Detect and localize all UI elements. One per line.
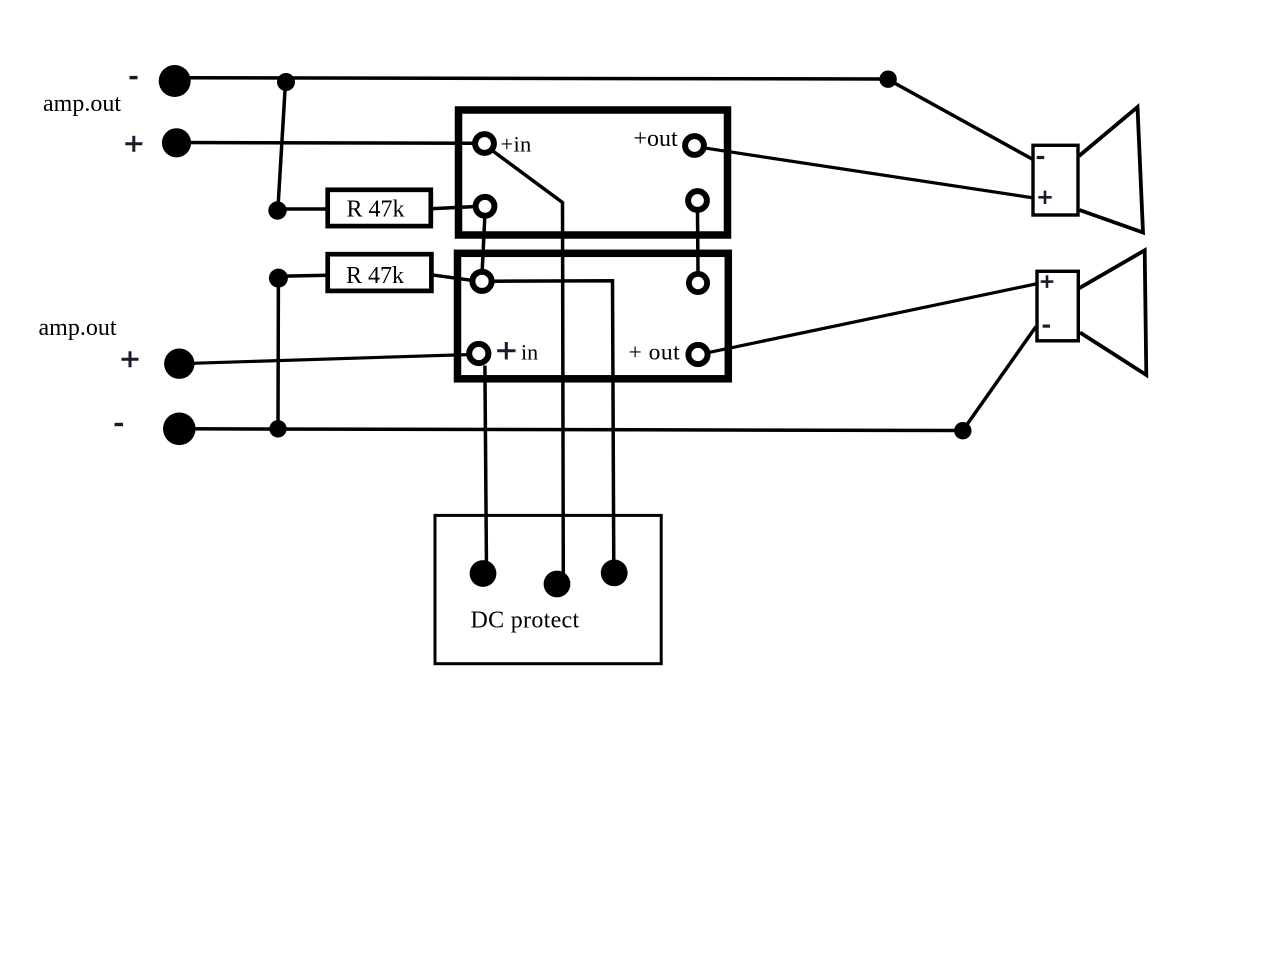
- svg-text:+in: +in: [501, 131, 532, 156]
- DC protect box: [435, 515, 661, 663]
- label plus (top amp.out): [125, 136, 142, 152]
- speaker1 body: [1033, 145, 1078, 215]
- label minus (bottom amp.out): [115, 423, 124, 426]
- terminal circle amp.out bottom plus: [164, 349, 194, 379]
- wire vertical J1 to J2: [278, 82, 286, 211]
- terminal circle amp.out bottom minus: [163, 413, 196, 446]
- wire relay2 +in down to DC protect: [485, 366, 487, 572]
- pin +in relay1: [475, 134, 494, 153]
- pin relay2 upper-right: [689, 274, 707, 292]
- wire relay1 lower-right pin to relay2 upper-right pin: [696, 212, 700, 272]
- speaker2 horn: [1079, 250, 1146, 375]
- junction node J1: [277, 73, 295, 91]
- pin relay2 +out: [688, 345, 707, 364]
- svg-text:DC protect: DC protect: [471, 608, 580, 634]
- label plus (speaker1): [1038, 191, 1051, 204]
- resistor R1 box: [328, 190, 431, 226]
- wire top minus rail: [175, 78, 888, 79]
- junction node J5: [954, 422, 971, 439]
- relay box 1: [459, 110, 728, 235]
- wire bottom plus to relay2 +in: [180, 355, 467, 364]
- DC protect pad middle: [544, 571, 571, 598]
- wire diagonal +in to DC protect feed: [490, 149, 564, 578]
- svg-text:in: in: [521, 340, 538, 365]
- wire plus to +in: [177, 141, 473, 145]
- wire relay1 lower-left pin to relay2 upper-left pin: [482, 217, 485, 270]
- wire J2 to resistor R1: [278, 207, 329, 211]
- svg-text:R 47k: R 47k: [346, 263, 404, 289]
- wire R2 to relay2 pin: [432, 275, 471, 280]
- DC protect pad left: [470, 560, 497, 587]
- svg-text:+ out: + out: [629, 340, 681, 366]
- wire relay2 upper-left pin to DC protect feed: [494, 281, 614, 570]
- wire relay1 +out to speaker1 plus: [706, 148, 1034, 198]
- wire bottom minus rail: [179, 429, 963, 431]
- resistor R2 box: [328, 254, 432, 291]
- junction node J2: [268, 201, 286, 219]
- DC protect pad right: [601, 560, 628, 587]
- pin relay1 lower-left: [476, 197, 495, 216]
- svg-text:amp.out: amp.out: [43, 91, 121, 117]
- label minus (top amp.out): [130, 76, 138, 79]
- junction node J4: [269, 420, 286, 437]
- junction node J3: [269, 269, 288, 288]
- pin +out relay1: [685, 136, 704, 155]
- wire J3 to resistor R2: [278, 275, 328, 276]
- label + in (relay2): [497, 342, 515, 360]
- label minus (speaker1): [1037, 156, 1045, 159]
- terminal circle amp.out top plus: [162, 128, 191, 157]
- pin relay2 upper-left: [472, 272, 491, 291]
- relay box 2: [458, 253, 729, 378]
- wire J5 to speaker2 minus: [963, 327, 1036, 431]
- svg-text:R 47k: R 47k: [347, 197, 405, 223]
- wire relay2 +out to speaker2 plus: [710, 284, 1039, 353]
- junction node J6 (top rail): [879, 71, 896, 88]
- label plus (speaker2): [1041, 275, 1054, 288]
- speaker1 horn: [1079, 107, 1143, 233]
- pin relay2 +in: [469, 344, 488, 363]
- terminal circle amp.out top minus: [159, 65, 191, 97]
- svg-text:amp.out: amp.out: [39, 315, 117, 341]
- label plus (bottom amp.out): [122, 351, 139, 367]
- pin relay1 lower-right: [688, 191, 707, 210]
- wire R1 to relay1 pin: [431, 207, 474, 209]
- wire vertical J3 to J4: [276, 278, 280, 429]
- speaker2 body: [1037, 271, 1078, 341]
- wire J6 to speaker1 minus: [889, 80, 1033, 160]
- svg-text:+out: +out: [634, 126, 679, 152]
- label minus (speaker2): [1043, 325, 1050, 328]
